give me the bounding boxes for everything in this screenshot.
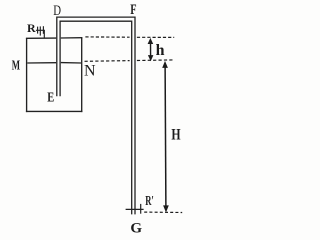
svg-text:D: D — [53, 3, 61, 19]
tank left edge — [26, 38, 28, 112]
dashed line 2 (liquid level N) — [85, 60, 175, 61]
dashed line 1 (tank top level) — [85, 36, 174, 39]
liquid level line M-N right segment — [61, 62, 81, 64]
arrow h (double headed, between dashed lines 1 and 2) — [148, 38, 154, 61]
tank top right segment — [61, 37, 83, 39]
dashed line 3 (bottom level at G) — [144, 211, 182, 213]
svg-text:F: F — [130, 2, 136, 18]
svg-text:H: H — [171, 126, 180, 143]
svg-text:E: E — [47, 90, 54, 105]
svg-text:N: N — [84, 63, 96, 80]
physics diagram: tank with tube D-E-F-G, taps R and R', levels M-N, heights h and H — [0, 0, 191, 239]
svg-text:G: G — [130, 221, 142, 237]
arrow H (double headed, from level N down to level G) — [162, 61, 169, 213]
tank right edge — [81, 38, 83, 112]
tank bottom — [26, 110, 83, 112]
tube outer wall E-D-F-G — [57, 17, 135, 214]
svg-text:M: M — [12, 59, 20, 74]
svg-text:h: h — [156, 42, 165, 59]
svg-text:R′: R′ — [145, 194, 154, 209]
tube inner wall — [60, 21, 132, 214]
tap R' (hatched) on tube near G — [126, 204, 144, 214]
tap R (hatched) on side tube at tank top — [36, 26, 45, 38]
liquid level line M-N left segment — [27, 62, 56, 64]
tank top left segment — [26, 37, 56, 39]
svg-text:R: R — [27, 21, 36, 35]
